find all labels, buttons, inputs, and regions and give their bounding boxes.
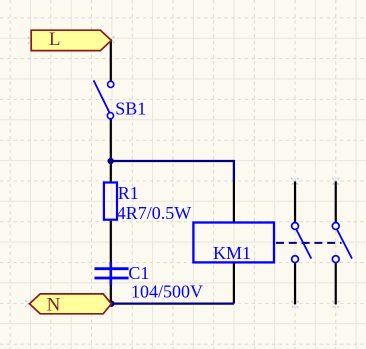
svg-text:KM1: KM1 — [213, 243, 251, 263]
svg-text:SB1: SB1 — [115, 98, 146, 118]
svg-text:4R7/0.5W: 4R7/0.5W — [117, 203, 192, 223]
svg-text:N: N — [47, 295, 61, 316]
svg-text:R1: R1 — [118, 183, 139, 203]
svg-text:C1: C1 — [128, 263, 149, 283]
svg-text:104/500V: 104/500V — [131, 281, 203, 301]
svg-text:L: L — [49, 29, 61, 50]
